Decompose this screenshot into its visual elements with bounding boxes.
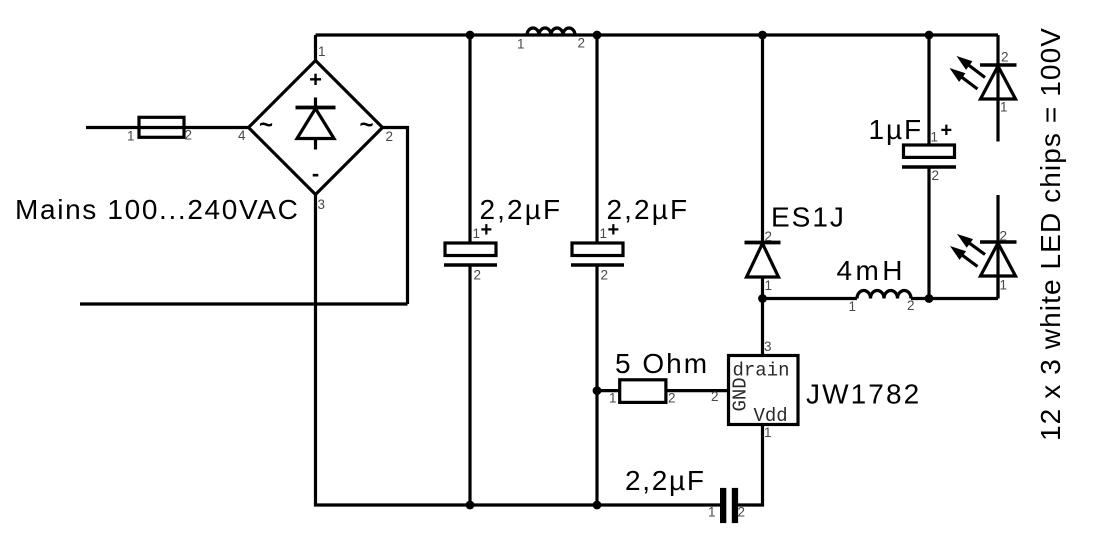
bridge rectifier D1 diamond: [249, 61, 383, 195]
L2 pin 1 label: [849, 299, 857, 314]
svg-text:2: 2: [711, 389, 719, 404]
wire D2 anode to IC pin3: [761, 277, 764, 356]
C1 pin 1 label: [473, 226, 481, 241]
svg-text:1: 1: [1000, 100, 1008, 115]
svg-text:2: 2: [185, 128, 193, 143]
R1 pin 1 label: [609, 391, 617, 406]
U1 pin 2 label: [711, 389, 719, 404]
R1 value 5 Ohm: [615, 348, 709, 379]
wire C4 1uF bottom lead: [927, 167, 930, 299]
U1 pin name drain: [733, 360, 790, 382]
capacitor C3 2,2uF plates: [720, 488, 738, 523]
svg-text:4mH: 4mH: [837, 255, 906, 286]
junction node 1: [466, 31, 475, 40]
wire top positive rail: [316, 33, 999, 36]
fuse F1: [139, 117, 184, 137]
svg-text:2,2µF: 2,2µF: [607, 194, 690, 225]
inductor L2 4mH: [857, 291, 911, 299]
svg-text:+: +: [941, 120, 953, 142]
bridge internal diode: [296, 98, 336, 150]
svg-text:2: 2: [668, 391, 676, 406]
bridge AC tilde left: [259, 112, 273, 139]
C1 plus mark: [481, 219, 493, 241]
svg-text:12 x 3 white LED chips = 100V: 12 x 3 white LED chips = 100V: [1035, 27, 1066, 441]
junction node 8: [466, 501, 475, 510]
C2 plus mark: [608, 219, 620, 241]
LED D3 pin 1 label: [1000, 100, 1008, 115]
junction node 7: [593, 386, 602, 395]
svg-text:1: 1: [765, 278, 773, 293]
svg-text:+: +: [309, 67, 322, 92]
D2 pin 1 label: [765, 278, 773, 293]
junction node 6: [925, 294, 934, 303]
wire D2 ES1J top lead: [761, 35, 764, 243]
C4 pin 1 label: [931, 130, 939, 145]
svg-text:5 Ohm: 5 Ohm: [615, 348, 709, 379]
wire L2 to LED2 anode: [911, 297, 998, 300]
junction node 5: [758, 294, 767, 303]
C3 pin 2 label: [738, 505, 746, 520]
D2 value ES1J: [771, 202, 846, 233]
svg-text:1: 1: [517, 37, 525, 52]
wire C4 1uF top lead: [927, 35, 930, 145]
wire C1 bottom lead: [468, 265, 471, 506]
svg-text:1: 1: [764, 425, 772, 440]
diode D2 ES1J: [745, 243, 781, 278]
svg-text:-: -: [312, 161, 319, 186]
L2 pin 2 label: [907, 298, 915, 313]
wire mains live to fuse and bridge pin4: [86, 126, 249, 129]
inductor L1: [527, 28, 575, 35]
wire R1 left lead: [597, 389, 620, 392]
wire C2 top lead: [595, 35, 598, 242]
svg-text:2: 2: [578, 36, 586, 51]
svg-text:2: 2: [601, 268, 609, 283]
op-amp U1 JW1782 body: [729, 356, 799, 425]
svg-text:3: 3: [764, 339, 772, 354]
R1 pin 2 label: [668, 391, 676, 406]
U1 pin name GND: [730, 377, 752, 411]
capacitor C4 1uF polarized: [902, 145, 956, 167]
junction node 9: [593, 501, 602, 510]
U1 pin name Vdd: [754, 405, 788, 427]
bridge pin 4 label: [238, 128, 246, 143]
C3 pin 1 label: [708, 505, 716, 520]
svg-text:2,2µF: 2,2µF: [480, 194, 563, 225]
wire bridge pin1 stub: [314, 35, 317, 61]
C2 pin 2 label: [601, 268, 609, 283]
svg-text:2: 2: [386, 129, 394, 144]
wire LED1 cathode lead: [996, 35, 999, 66]
svg-text:2: 2: [474, 268, 482, 283]
svg-text:GND: GND: [730, 377, 752, 411]
bridge pin 3 label: [318, 197, 326, 212]
capacitor C2 2,2uF polarized: [571, 243, 624, 265]
C4 plus mark: [941, 120, 953, 142]
svg-text:1: 1: [931, 130, 939, 145]
svg-text:2,2µF: 2,2µF: [625, 465, 706, 496]
svg-text:ES1J: ES1J: [771, 202, 846, 233]
bridge pin 1 label: [318, 44, 326, 59]
LED D3 symbol: [980, 65, 1017, 99]
U1 pin 3 label: [764, 339, 772, 354]
LED D4 pin 2 label: [1000, 229, 1008, 244]
svg-text:1: 1: [600, 226, 608, 241]
U1 value JW1782: [806, 379, 921, 410]
wire LED1 anode open lead: [996, 66, 999, 142]
L1 pin 1 label: [517, 37, 525, 52]
C2 value 2,2uF: [607, 194, 690, 225]
wire C2 bottom lead: [595, 265, 598, 506]
LED D4 symbol: [980, 242, 1017, 276]
resistor R1 5 Ohm: [620, 380, 666, 403]
fuse pin 2 label: [185, 128, 193, 143]
svg-text:2: 2: [1000, 229, 1008, 244]
svg-text:1: 1: [473, 226, 481, 241]
svg-text:1µF: 1µF: [869, 114, 924, 145]
junction node 2: [593, 31, 602, 40]
L1 pin 2 label: [578, 36, 586, 51]
svg-text:1: 1: [318, 44, 326, 59]
bridge pin 2 label: [386, 129, 394, 144]
svg-text:2: 2: [932, 168, 940, 183]
fuse pin 1 label: [127, 129, 135, 144]
LED D4 emission arrows: [950, 234, 985, 267]
wire LED2 cathode open lead: [996, 195, 999, 299]
LED D3 emission arrows: [950, 56, 986, 89]
svg-text:4: 4: [238, 128, 246, 143]
svg-text:2: 2: [1001, 50, 1009, 65]
svg-text:1: 1: [1000, 278, 1008, 293]
junction node 3: [758, 31, 767, 40]
svg-text:1: 1: [708, 505, 716, 520]
capacitor C1 2,2uF polarized: [444, 243, 497, 265]
label Mains 100...240VAC: [15, 194, 299, 225]
LED D4 pin 1 label: [1000, 278, 1008, 293]
svg-text:2: 2: [738, 505, 746, 520]
wire IC pin1 to C3: [738, 425, 763, 506]
D2 pin 2 label: [765, 229, 773, 244]
C4 value 1uF: [869, 114, 924, 145]
C1 value 2,2uF: [480, 194, 563, 225]
L2 value 4mH: [837, 255, 906, 286]
bridge minus mark: [312, 161, 319, 186]
svg-text:JW1782: JW1782: [806, 379, 921, 410]
svg-text:~: ~: [259, 112, 273, 139]
wire node to inductor L2: [763, 297, 858, 300]
wire C1 top lead: [468, 35, 471, 242]
svg-text:1: 1: [127, 129, 135, 144]
C1 pin 2 label: [474, 268, 482, 283]
svg-text:Vdd: Vdd: [754, 405, 788, 427]
note 12 x 3 white LED chips = 100V: [1035, 27, 1066, 441]
wire mains neutral return: [80, 302, 408, 305]
svg-text:3: 3: [318, 197, 326, 212]
svg-text:2: 2: [907, 298, 915, 313]
wire bridge pin3 to bottom rail: [316, 195, 721, 506]
C4 pin 2 label: [932, 168, 940, 183]
C3 value 2,2uF: [625, 465, 706, 496]
wire LED2 anode lead: [996, 276, 999, 299]
U1 pin 1 label: [764, 425, 772, 440]
bridge plus mark: [309, 67, 322, 92]
C2 pin 1 label: [600, 226, 608, 241]
svg-text:1: 1: [609, 391, 617, 406]
bridge AC tilde right: [359, 112, 373, 139]
svg-text:Mains 100...240VAC: Mains 100...240VAC: [15, 194, 299, 225]
wire bridge pin2 down: [383, 128, 408, 305]
LED D3 pin 2 label: [1001, 50, 1009, 65]
wire R1 to IC pin2: [666, 389, 729, 392]
junction node 4: [925, 31, 934, 40]
svg-text:1: 1: [849, 299, 857, 314]
svg-text:~: ~: [359, 112, 373, 139]
